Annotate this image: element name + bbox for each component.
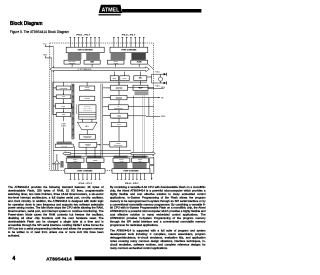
- grey bus pair right: [143, 95, 145, 157]
- svg-text:TMP1: TMP1: [62, 114, 66, 116]
- wire flash to border: [148, 64, 153, 69]
- bus hatch under port 2 drivers (left): [111, 53, 126, 60]
- block PROGRAM COUNTER: [111, 95, 127, 100]
- header rule: [122, 9, 201, 13]
- svg-text:ATMEL: ATMEL: [102, 8, 120, 14]
- block TMP1: [56, 113, 71, 117]
- svg-text:XTAL 2: XTAL 2: [155, 85, 160, 88]
- block WATCHDOG: [133, 85, 148, 90]
- control bus right arrow: [131, 152, 155, 156]
- bus connector arrows: [103, 87, 111, 116]
- block BUFFER (pc): [110, 76, 118, 81]
- svg-text:TIMERS: TIMERS: [93, 160, 98, 162]
- control bus wire: [53, 150, 131, 153]
- svg-text:SBUF: SBUF: [113, 78, 117, 80]
- block SPI: [132, 158, 149, 163]
- block ACC: [56, 95, 71, 99]
- wire dptr-dptr2: [118, 118, 120, 123]
- footer part number: [46, 256, 72, 262]
- svg-text:REGISTER: REGISTER: [84, 137, 90, 139]
- port 0 pin stubs: [69, 37, 100, 47]
- block OSC: [134, 76, 147, 81]
- svg-text:PORT: PORT: [138, 160, 142, 162]
- RST line: [146, 97, 164, 100]
- block PCON: [120, 76, 129, 81]
- block TIMING AND CONTROL: [110, 141, 127, 147]
- block PORT 3 DRIVERS: [112, 169, 150, 174]
- svg-text:PSW: PSW: [62, 123, 66, 125]
- GND pin: [43, 55, 52, 58]
- svg-text:PORT 2 DRIVERS: PORT 2 DRIVERS: [121, 50, 137, 52]
- svg-text:4: 4: [12, 256, 15, 262]
- VCC rail wire: [53, 47, 55, 171]
- hatch below port 1 latch: [67, 162, 81, 168]
- block PORT 2 DRIVERS: [110, 47, 148, 52]
- svg-text:PORT 1 DRIVERS: PORT 1 DRIVERS: [77, 171, 93, 173]
- svg-text:Block Diagram: Block Diagram: [10, 21, 43, 27]
- svg-text:LOGIC: LOGIC: [86, 145, 90, 147]
- heading Block Diagram: [10, 21, 43, 27]
- label P1.0 - P1.7: [79, 183, 94, 185]
- bus hatch under port 0 drivers (left): [68, 53, 82, 60]
- svg-text:PCON: PCON: [123, 78, 127, 80]
- block PORT 1 DRIVERS: [65, 169, 105, 174]
- ALU: [77, 119, 97, 130]
- svg-text:P0.0 - P0.7: P0.0 - P0.7: [77, 35, 92, 37]
- svg-text:P1.0 - P1.7: P1.0 - P1.7: [79, 183, 94, 185]
- left body column: [8, 186, 104, 238]
- bus hatch under port 2 drivers (right): [131, 53, 145, 60]
- hatch above spi latch: [132, 156, 146, 158]
- block PORT 0 DRIVERS: [66, 47, 104, 52]
- svg-text:AT89S4414: AT89S4414: [46, 256, 72, 262]
- shaded block: [135, 91, 149, 95]
- label P0.0 - P0.7: [77, 35, 92, 37]
- svg-text:COUNTER: COUNTER: [116, 98, 122, 100]
- wires right column to border: [127, 88, 154, 117]
- crystal symbol: [158, 74, 162, 83]
- wire inc-dptr: [118, 110, 120, 114]
- connector logic-bus: [97, 144, 109, 145]
- svg-text:P2.0 - P2.7: P2.0 - P2.7: [122, 35, 137, 37]
- ALE/PROG line: [148, 87, 165, 89]
- block DUAL DPTR (shadowed): [111, 113, 129, 119]
- internal data bus arrow: [50, 67, 149, 72]
- wire arrow to buffer stubs: [114, 72, 140, 76]
- wire pa-pc: [118, 81, 120, 96]
- block DPTR: [111, 123, 127, 127]
- svg-text:XTAL 1: XTAL 1: [155, 71, 160, 74]
- page number: [12, 256, 15, 262]
- svg-text:INCREMENTER: INCREMENTER: [114, 107, 123, 109]
- svg-text:PROG: PROG: [161, 87, 165, 89]
- wire pc-inc: [118, 100, 120, 105]
- block TIMERS: [86, 158, 104, 162]
- hatch below spi latch: [132, 162, 146, 168]
- PSEN line: [146, 116, 165, 118]
- svg-text:OSC: OSC: [139, 78, 142, 80]
- svg-text:BUFFER: BUFFER: [85, 98, 90, 100]
- wire latch feeds: [75, 146, 120, 158]
- hatch above port 1 latch: [67, 156, 81, 158]
- svg-text:DOG: DOG: [139, 88, 142, 90]
- chip boundary (dashed): [50, 43, 154, 171]
- block CONTROL: [79, 142, 97, 147]
- block STACK POINTER: [79, 86, 94, 91]
- wire TMP2 to TMP1: [63, 108, 65, 111]
- XTAL fork wire: [147, 74, 164, 83]
- GND rail wire: [51, 58, 53, 171]
- wire osc drop: [140, 81, 142, 86]
- block PC INCREMENTER: [109, 105, 129, 110]
- svg-text:TIMER BLOCKS: TIMER BLOCKS: [83, 110, 92, 112]
- hatch above timer latch: [87, 156, 101, 158]
- bus hatch under port 0 drivers (right): [86, 53, 100, 60]
- block INSTRUCTION REGISTER: [79, 135, 95, 140]
- wire dptr to timing: [118, 127, 120, 142]
- oscillator triangle: [52, 154, 60, 171]
- figure caption: [10, 30, 69, 34]
- svg-text:TMP2: TMP2: [62, 105, 66, 107]
- hatch below port 3 latch: [114, 162, 128, 168]
- block PORT 3 LATCH: [113, 158, 130, 162]
- VCC pin: [43, 43, 54, 46]
- block RAM: [84, 60, 100, 67]
- svg-text:B REGISTER: B REGISTER: [60, 87, 68, 89]
- wire ALU to instruction register: [86, 130, 88, 135]
- wire right column down: [133, 96, 135, 158]
- svg-text:RST: RST: [161, 97, 164, 99]
- border box upper: [150, 158, 154, 164]
- hatched register block: [55, 142, 73, 148]
- block PORT 0 LATCH: [107, 60, 124, 67]
- block B REGISTER: [56, 86, 71, 90]
- XTAL1 pin: [155, 71, 166, 76]
- svg-text:PORT 3 DRIVERS: PORT 3 DRIVERS: [124, 171, 140, 173]
- hatch beside triangle: [60, 161, 63, 168]
- control bus left arrow: [63, 152, 71, 156]
- footer rule: [75, 256, 201, 260]
- Atmel logo: [99, 5, 123, 16]
- svg-text:PORT 0 DRIVERS: PORT 0 DRIVERS: [78, 50, 94, 52]
- label P3.0 - P3.7: [125, 183, 140, 185]
- svg-text:8 - BIT DATA BUS: 8 - BIT DATA BUS: [78, 68, 92, 71]
- label P2.0 - P2.7: [122, 35, 137, 37]
- hatch above port 3 latch: [114, 156, 128, 158]
- svg-text:Figure 5. The AT89S4414 Block: Figure 5. The AT89S4414 Block Diagram: [10, 30, 69, 34]
- XTAL2 pin: [155, 82, 166, 88]
- svg-text:INTERRUPT,: INTERRUPT,: [84, 106, 92, 108]
- left register rail with arrows: [53, 82, 56, 115]
- block interrupt serial and timer: [79, 105, 96, 119]
- internal bus ladder: [72, 84, 74, 140]
- svg-text:P3.0 - P3.7: P3.0 - P3.7: [125, 183, 140, 185]
- block BUFFER: [80, 96, 95, 100]
- block PORT 1 LATCH: [66, 158, 84, 162]
- svg-text:POINTER: POINTER: [84, 88, 90, 90]
- wire bus-to-register row: [53, 82, 147, 86]
- block RAM ADDR REGISTER: [64, 60, 80, 67]
- block PROGRAM ADDR REGISTER: [111, 85, 128, 90]
- grey bracket near TMP: [75, 104, 77, 114]
- svg-text:DPTR: DPTR: [117, 124, 120, 126]
- central bus wires: [101, 84, 103, 158]
- right body column: [110, 186, 206, 250]
- port 3 pin stubs: [117, 173, 146, 179]
- wire ACC to TMP2: [63, 99, 65, 103]
- svg-text:PSEN: PSEN: [161, 116, 165, 118]
- pin below border boxes: [151, 173, 153, 180]
- port 1 pin stubs: [70, 173, 101, 179]
- svg-text:REGISTER: REGISTER: [61, 146, 67, 148]
- wire latch row feed: [66, 147, 148, 158]
- svg-text:DPTR: DPTR: [117, 116, 120, 118]
- hatch below timer latch: [87, 162, 101, 168]
- block FLASH: [131, 60, 148, 67]
- wire PSW down: [63, 127, 65, 142]
- label PSW: [61, 117, 66, 128]
- port 2 pin stubs: [113, 37, 145, 47]
- block TMP2: [55, 104, 71, 109]
- wire B REGISTER to ACC: [63, 90, 65, 94]
- border box lower: [150, 166, 154, 174]
